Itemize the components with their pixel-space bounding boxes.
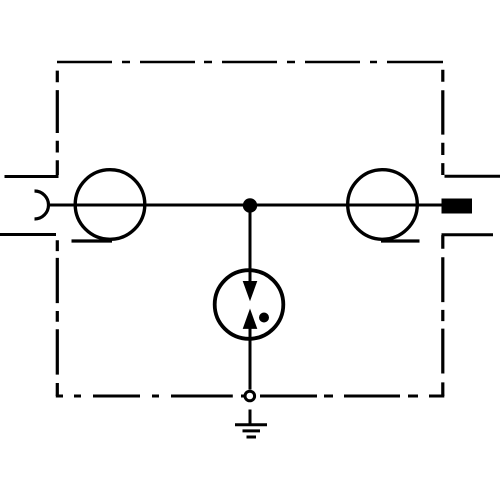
gas discharge tube arrester circle bbox=[215, 270, 284, 339]
enclosure dash-dot boundary right edge lower bbox=[441, 235, 444, 396]
input terminal lower plate (left) bbox=[0, 233, 56, 236]
output terminal lower plate (right) bbox=[442, 233, 494, 236]
wire from arrester to earth terminal node bbox=[249, 326, 252, 390]
enclosure dash-dot boundary left edge lower bbox=[56, 240, 59, 396]
coil L2 bottom tangent lead bbox=[381, 239, 420, 242]
coil L1 bottom tangent lead bbox=[72, 239, 113, 242]
enclosure dash-dot boundary bottom edge bbox=[56, 395, 445, 398]
main horizontal wire L bbox=[48, 204, 443, 207]
input terminal socket contact (left) bbox=[35, 191, 49, 219]
enclosure dash-dot boundary right edge upper bbox=[441, 70, 444, 175]
vertical wire from node to arrester bbox=[249, 205, 252, 284]
earth lead stem bbox=[249, 410, 252, 427]
output terminal upper plate (right) bbox=[445, 175, 500, 178]
enclosure dash-dot boundary top edge bbox=[57, 61, 443, 63]
decoupling element coil L2 (right circle) bbox=[348, 170, 418, 240]
ground symbol bar 3 bbox=[247, 436, 257, 439]
arrester upper electrode arrow (down) bbox=[243, 281, 258, 301]
ground symbol bar 1 bbox=[235, 423, 267, 426]
decoupling element coil L1 (left circle) bbox=[75, 170, 145, 240]
output terminal plug contact (black rectangle) bbox=[442, 199, 473, 214]
input terminal upper plate (left) bbox=[5, 175, 59, 178]
enclosure dash-dot boundary left edge upper bbox=[56, 71, 59, 175]
node junction dot bbox=[243, 198, 257, 212]
ground symbol bar 2 bbox=[243, 429, 261, 432]
arrester lower electrode arrow (up) bbox=[243, 309, 258, 329]
gas-filled indicator dot bbox=[259, 313, 269, 323]
earth terminal open node bbox=[245, 391, 255, 401]
